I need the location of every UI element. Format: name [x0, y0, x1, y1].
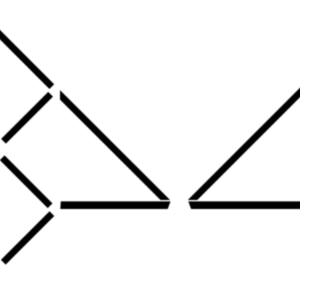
resistor R1 zigzag segment 3 [3, 214, 52, 263]
wire: left horizontal bus segment [60, 201, 170, 209]
resistor R1 zigzag segment 2 [2, 158, 50, 206]
wire: 45-deg branch from node A down to left bus tip [60, 90, 170, 200]
resistor R1 zigzag segment 1 [4, 94, 51, 141]
wire: 45-deg branch from top-right edge down to right bus tip [188, 84, 304, 200]
wire: right horizontal bus segment [188, 201, 302, 209]
wire segment into node A from top-left [0, 27, 52, 87]
